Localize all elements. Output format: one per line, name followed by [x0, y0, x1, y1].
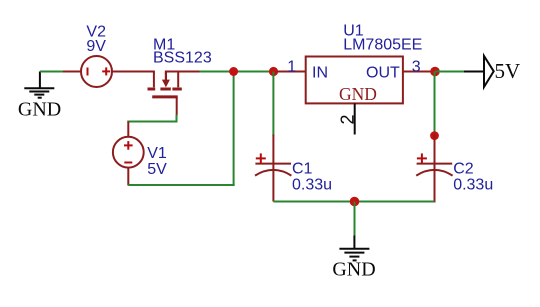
svg-text:C1: C1: [292, 161, 313, 178]
C1 curved plate: [255, 170, 291, 176]
wire (bottom rail, green): [273, 201, 434, 203]
V1 plus mark: [124, 141, 133, 150]
svg-text:GND: GND: [339, 84, 377, 104]
M1 body arrow stub: [165, 72, 167, 81]
C2 curved plate: [416, 170, 452, 176]
ground GND (left power ground symbol): [24, 72, 54, 98]
V1 minus mark: [124, 162, 132, 164]
wire (V2 right pin to M1 source, dark red): [112, 71, 155, 73]
svg-text:9V: 9V: [86, 38, 106, 55]
voltage source V2: [81, 56, 112, 87]
svg-text:OUT: OUT: [366, 65, 400, 82]
wire (output node down to C2, green): [434, 72, 436, 136]
wire (V2 left pin, dark red): [63, 71, 82, 73]
C1 plus mark: [256, 153, 266, 163]
pin 3 wire (U1 OUT pin, dark red): [403, 71, 435, 73]
M1 gate bar: [152, 95, 178, 98]
wire (V1 bottom to loop corner, green): [128, 184, 234, 186]
svg-text:C2: C2: [453, 161, 474, 178]
C2 plus mark: [417, 153, 427, 163]
M1 channel bar right: [172, 88, 181, 91]
V2 minus mark (rotated): [87, 68, 89, 76]
wire (loop vertical up to drain node, green): [233, 72, 235, 187]
M1 drain stub: [177, 72, 179, 88]
voltage source V1: [113, 137, 144, 168]
svg-text:3: 3: [412, 58, 421, 75]
transistor M1 BSS123: [148, 72, 201, 116]
svg-text:0.33u: 0.33u: [292, 177, 332, 194]
C1 bottom lead: [272, 170, 274, 202]
capacitor C1: [255, 135, 291, 202]
junction (output node dot): [430, 67, 440, 77]
wire (node down to C1, green): [272, 72, 274, 136]
junction (ground rail dot): [350, 197, 360, 207]
wire (port pin, black): [464, 71, 484, 73]
wire (gate column, green): [176, 115, 178, 123]
C2 bottom lead: [434, 170, 436, 203]
svg-text:GND: GND: [332, 259, 375, 281]
junction (C1 branch node dot): [269, 67, 278, 76]
svg-text:5V: 5V: [495, 59, 521, 83]
capacitor C2: [416, 135, 452, 203]
svg-text:2: 2: [338, 114, 358, 124]
M1 channel bar middle: [160, 88, 170, 91]
svg-text:GND: GND: [18, 99, 61, 121]
svg-text:1: 1: [287, 58, 296, 75]
svg-text:BSS123: BSS123: [153, 50, 212, 67]
svg-text:IN: IN: [312, 65, 328, 82]
svg-text:5V: 5V: [147, 161, 167, 178]
M1 channel bar left: [148, 88, 156, 91]
junction (drain node dot): [229, 67, 238, 76]
wire (rail dot down, green): [354, 202, 356, 237]
svg-text:0.33u: 0.33u: [453, 177, 493, 194]
svg-text:LM7805EE: LM7805EE: [343, 37, 422, 54]
junction (C2 top dot): [430, 131, 439, 140]
ground GND (bottom power ground symbol): [339, 236, 369, 261]
port 5V (output power port triangle): [484, 56, 494, 87]
V2 plus mark: [102, 67, 110, 75]
op-amp U1 regulator box LM7805EE: [306, 57, 403, 104]
M1 gate lead down: [176, 97, 178, 116]
wire (gate to V1 top, green horizontal): [127, 121, 177, 123]
M1 body arrow head: [162, 80, 170, 88]
C2 top lead: [434, 135, 436, 171]
svg-text:V1: V1: [147, 145, 167, 162]
M1 source stub: [153, 72, 155, 88]
pin 1 wire (U1 IN pin, dark red): [277, 71, 307, 73]
C2 top plate: [417, 163, 453, 165]
V1 bottom pin: [127, 167, 129, 185]
C1 top plate: [255, 163, 291, 165]
wire (M1 drain to node, green): [200, 71, 278, 73]
pin 2 wire (U1 GND pin, black): [354, 103, 356, 134]
wire (GND to V2 left pin, green): [40, 71, 64, 73]
C1 top lead: [272, 135, 274, 171]
wire (output node to port, green): [435, 71, 465, 73]
M1 top wire (body to drain): [165, 71, 201, 73]
V1 top pin: [127, 122, 129, 138]
